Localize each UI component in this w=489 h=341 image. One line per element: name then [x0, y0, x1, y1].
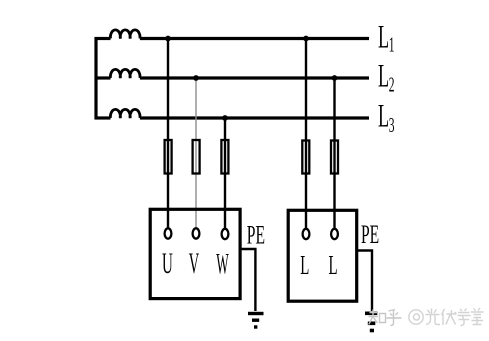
box: right device (L L)	[288, 210, 357, 301]
wire: drop from L2 to terminal V (thin grey)	[195, 78, 197, 229]
terminal circle L (right)	[331, 229, 338, 239]
node junction on L2 at x=196	[193, 75, 199, 81]
terminal circle U	[165, 228, 172, 238]
svg-text:V: V	[189, 248, 199, 281]
wire: line L1 right segment	[140, 37, 369, 40]
terminal circle V	[193, 228, 200, 238]
box: left device (U V W)	[150, 209, 240, 298]
svg-text:L: L	[378, 57, 389, 94]
node junction on L1 at x=168	[165, 36, 171, 42]
svg-text:PE: PE	[361, 220, 379, 249]
光	[426, 309, 441, 325]
terminal circle L (left)	[303, 229, 310, 239]
wire: drop from L2 to right box terminal L	[333, 78, 335, 229]
wire: drop from L1 to terminal U	[167, 39, 169, 229]
wire: line L3 right segment	[140, 116, 369, 119]
wire: line L1 left segment	[95, 37, 111, 40]
wire: left vertical bus joining L1 L2 L3	[94, 37, 97, 119]
wire: line L3 left segment	[95, 116, 111, 119]
terminal circle W	[222, 229, 229, 239]
inductor on L1	[110, 30, 140, 39]
fuse F5	[331, 141, 338, 174]
svg-text:3: 3	[389, 113, 395, 137]
inductor on L3	[110, 109, 140, 118]
watermark: 知乎 @光伏学堂 (grey, drawn as faux glyph strokes)	[369, 308, 484, 326]
svg-text:PE: PE	[247, 220, 265, 249]
wire: drop from L3 to terminal W	[224, 118, 226, 229]
svg-text:W: W	[216, 248, 229, 282]
wire: left box PE lead	[240, 249, 255, 311]
@	[409, 310, 423, 324]
node junction on L2 at x=334.5	[332, 75, 338, 81]
wire: line L2 right segment	[140, 76, 369, 79]
node junction on L3 at x=225	[222, 115, 228, 121]
fuse F1	[165, 140, 172, 174]
wire: drop from L1 to right box terminal L	[305, 39, 307, 229]
堂	[471, 308, 484, 325]
svg-text:L: L	[378, 97, 389, 134]
知	[369, 310, 379, 325]
node junction on L1 at x=306	[303, 36, 309, 42]
fuse F3	[221, 140, 228, 174]
svg-text:2: 2	[389, 73, 395, 97]
svg-text:L: L	[300, 250, 309, 280]
fuse F2	[193, 140, 200, 174]
ground (left)	[248, 312, 264, 315]
fuse F4	[302, 141, 309, 174]
svg-text:U: U	[162, 248, 173, 281]
乎	[387, 310, 402, 326]
svg-text:1: 1	[389, 33, 395, 57]
伏	[442, 309, 457, 325]
学	[458, 309, 471, 326]
inductor on L2	[110, 69, 140, 78]
svg-text:L: L	[378, 18, 389, 55]
wire: line L2 left segment	[95, 76, 111, 79]
ground (right)	[365, 311, 377, 315]
svg-text:L: L	[328, 250, 337, 280]
wire: right box PE lead	[357, 251, 372, 312]
